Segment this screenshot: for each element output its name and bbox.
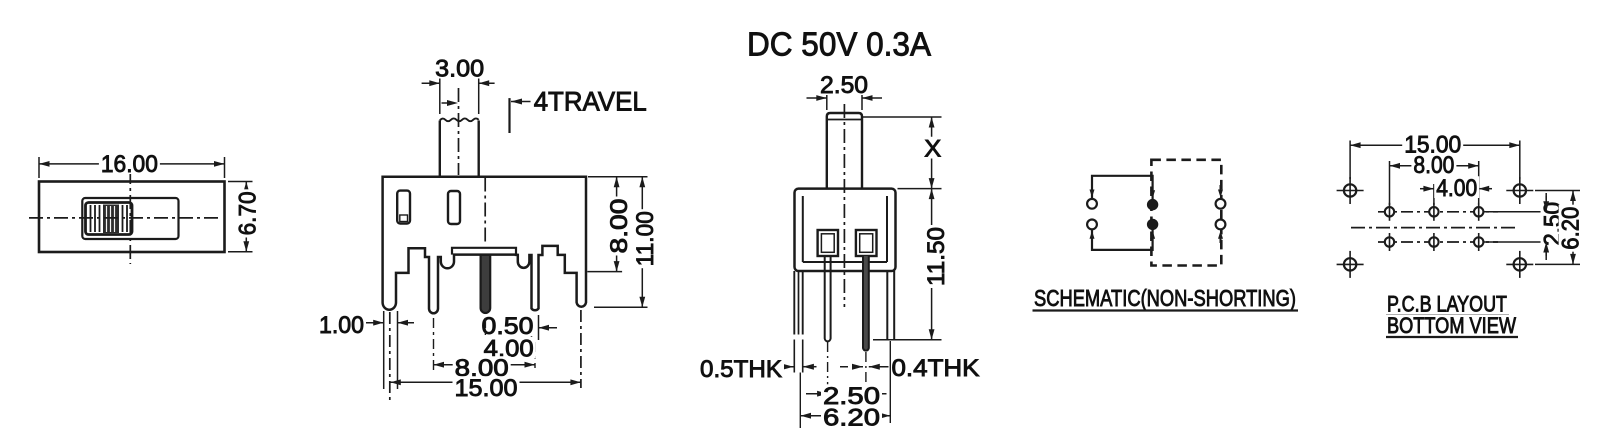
svg-text:11.50: 11.50: [923, 227, 950, 286]
svg-text:0.4THK: 0.4THK: [892, 355, 980, 382]
svg-text:16.00: 16.00: [101, 151, 158, 178]
svg-text:11.00: 11.00: [632, 211, 659, 266]
svg-text:6.20: 6.20: [1557, 207, 1584, 250]
svg-text:2.50: 2.50: [820, 72, 868, 99]
svg-text:4TRAVEL: 4TRAVEL: [534, 87, 647, 117]
svg-text:0.5THK: 0.5THK: [700, 356, 782, 383]
svg-text:SCHEMATIC(NON-SHORTING): SCHEMATIC(NON-SHORTING): [1034, 285, 1296, 311]
svg-text:15.00: 15.00: [455, 375, 518, 402]
svg-text:8.00: 8.00: [606, 199, 633, 254]
svg-text:6.20: 6.20: [823, 405, 880, 432]
svg-text:BOTTOM VIEW: BOTTOM VIEW: [1387, 313, 1516, 338]
svg-text:6.70: 6.70: [235, 191, 262, 235]
svg-text:1.00: 1.00: [319, 312, 364, 339]
svg-text:3.00: 3.00: [435, 56, 484, 83]
svg-text:4.00: 4.00: [1436, 175, 1477, 202]
svg-text:DC 50V 0.3A: DC 50V 0.3A: [747, 26, 931, 63]
svg-text:X: X: [924, 136, 941, 163]
